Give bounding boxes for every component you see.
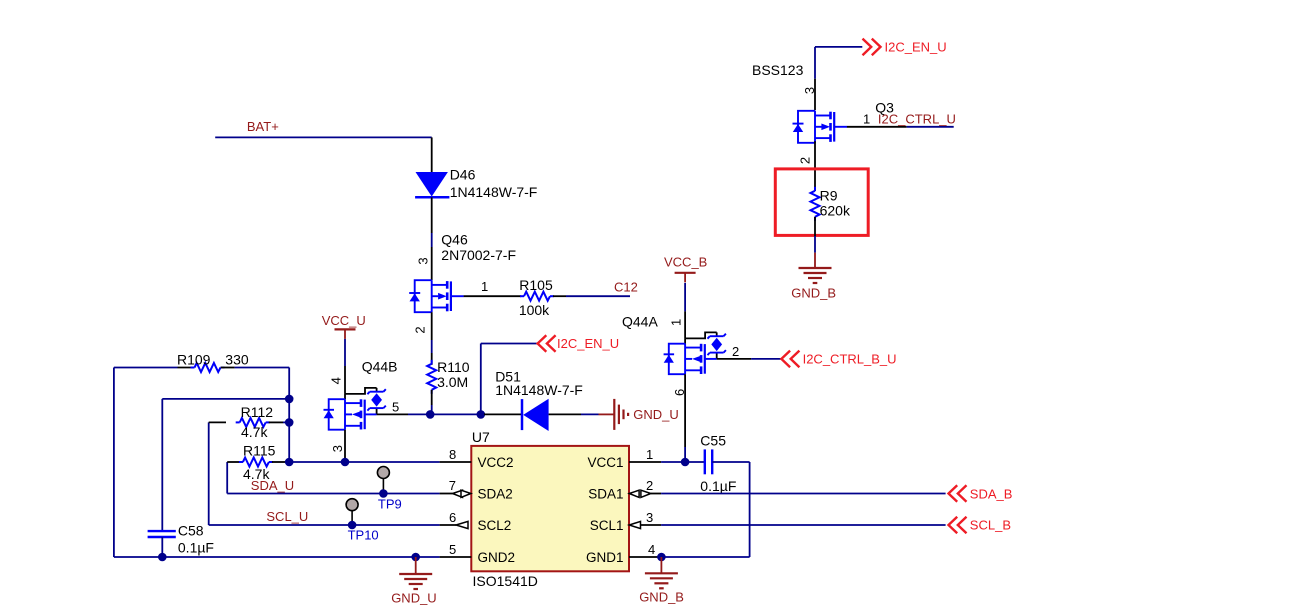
wire pin5 node row xyxy=(408,413,484,415)
wire VCC_U to Q44B xyxy=(344,339,346,366)
svg-text:3: 3 xyxy=(802,87,817,94)
testpoint TP9 xyxy=(377,467,401,512)
transistor Q44A xyxy=(622,314,726,375)
svg-text:GND_B: GND_B xyxy=(639,589,684,604)
wire VCC_B to Q44A xyxy=(684,283,686,312)
svg-text:I2C_CTRL_B_U: I2C_CTRL_B_U xyxy=(803,352,897,367)
wire SDA_U xyxy=(227,493,439,495)
svg-text:1: 1 xyxy=(668,319,683,326)
svg-text:VCC2: VCC2 xyxy=(478,455,514,470)
svg-text:GND1: GND1 xyxy=(586,550,624,565)
wire left column xyxy=(113,368,115,558)
svg-text:1: 1 xyxy=(863,111,870,126)
ground GND_U (side) xyxy=(614,399,679,430)
capacitor C58 0.1uF xyxy=(148,523,214,558)
svg-text:TP10: TP10 xyxy=(348,528,379,543)
svg-text:4: 4 xyxy=(648,542,655,557)
resistor R9 620k xyxy=(811,187,851,236)
IC U7 ISO1541D body xyxy=(471,429,629,589)
net label SCL_U xyxy=(266,509,308,524)
junction GND1 xyxy=(657,553,666,562)
svg-text:2: 2 xyxy=(732,344,739,359)
wire R9 to GND_B xyxy=(814,236,816,268)
svg-text:GND_B: GND_B xyxy=(791,285,836,300)
wire BAT+ corner to D46 xyxy=(431,137,433,172)
port SCL_B xyxy=(949,517,1012,534)
svg-text:7: 7 xyxy=(449,478,456,493)
resistor R112 4.7k xyxy=(209,404,290,525)
wire / net label C12 xyxy=(566,280,638,297)
svg-text:8: 8 xyxy=(449,447,456,462)
svg-text:GND_U: GND_U xyxy=(391,590,437,605)
wire SCL1 to port xyxy=(661,524,946,526)
junction VCC1/Q44A xyxy=(681,458,690,467)
svg-text:0.1µF: 0.1µF xyxy=(178,540,214,556)
wire Q44A to VCC1 node xyxy=(684,447,686,462)
svg-text:ISO1541D: ISO1541D xyxy=(473,573,538,589)
power port VCC_U xyxy=(322,313,366,339)
svg-text:GND_U: GND_U xyxy=(633,407,679,422)
svg-text:TP9: TP9 xyxy=(378,496,402,511)
svg-text:I2C_CTRL_U: I2C_CTRL_U xyxy=(878,111,956,126)
wire SDA1 to port xyxy=(661,493,946,495)
diode D46 1N4148W-7-F xyxy=(415,166,537,200)
wire D46 to Q46 xyxy=(431,197,433,280)
svg-text:VCC1: VCC1 xyxy=(587,455,623,470)
ground GND_B (bottom) xyxy=(639,557,684,604)
power port VCC_B xyxy=(664,254,707,282)
svg-text:SCL_U: SCL_U xyxy=(266,509,308,524)
pin 3 of Q44B xyxy=(330,430,345,462)
svg-text:D46: D46 xyxy=(450,166,476,182)
resistor R115 4.7k xyxy=(227,443,289,494)
svg-text:1N4148W-7-F: 1N4148W-7-F xyxy=(450,184,538,200)
svg-text:BAT+: BAT+ xyxy=(247,119,279,134)
net label BAT+ xyxy=(247,119,279,134)
pin 1 VCC1 xyxy=(587,447,661,470)
pin 6 SCL2 xyxy=(440,510,512,533)
pin 3 of Q3 xyxy=(802,79,817,111)
junction EN branch xyxy=(477,410,486,419)
svg-text:1: 1 xyxy=(481,279,488,294)
pin 8 VCC2 xyxy=(440,447,514,470)
ground GND_U (bottom) xyxy=(391,553,437,606)
pin 4 of Q44B xyxy=(328,366,345,394)
svg-text:4.7k: 4.7k xyxy=(241,424,268,440)
wire mid column xyxy=(288,368,290,463)
svg-text:C55: C55 xyxy=(700,433,726,449)
svg-text:VCC_U: VCC_U xyxy=(322,313,366,328)
pin 3 SCL1 xyxy=(590,510,661,533)
port I2C_EN_U (top right) xyxy=(863,39,947,56)
testpoint TP10 xyxy=(346,499,379,543)
svg-text:SDA_B: SDA_B xyxy=(970,487,1013,502)
junction Q44B pin3 xyxy=(341,458,350,467)
pin 2 SDA1 xyxy=(588,478,661,501)
resistor R109 330 xyxy=(114,351,289,372)
svg-text:0.1µF: 0.1µF xyxy=(700,478,736,494)
svg-text:3: 3 xyxy=(646,510,653,525)
wire GND2 row xyxy=(114,556,440,558)
pin 2 of Q44A / port I2C_CTRL_B_U xyxy=(717,344,897,367)
svg-text:5: 5 xyxy=(392,399,399,414)
pin 1 of Q3 / net I2C_CTRL_U xyxy=(847,111,956,127)
svg-text:100k: 100k xyxy=(519,302,550,318)
svg-text:R105: R105 xyxy=(519,277,553,293)
wire C58 branch xyxy=(162,399,289,531)
wire Q46 to R110 xyxy=(431,340,433,365)
resistor R105 100k xyxy=(519,277,566,318)
label Q46 2N7002-7-F xyxy=(441,231,516,263)
svg-text:SCL_B: SCL_B xyxy=(970,518,1011,533)
port I2C_EN_U (middle) xyxy=(538,335,620,352)
svg-text:R112: R112 xyxy=(241,404,274,420)
svg-text:R9: R9 xyxy=(820,187,838,203)
highlight box around R9 xyxy=(775,169,868,236)
svg-text:6: 6 xyxy=(449,510,456,525)
svg-text:SCL1: SCL1 xyxy=(590,518,624,533)
junction C58 branch xyxy=(285,395,294,404)
svg-text:6: 6 xyxy=(672,389,687,396)
capacitor C55 0.1uF xyxy=(700,433,736,494)
pin 4 GND1 xyxy=(586,542,661,565)
svg-text:2: 2 xyxy=(413,326,428,333)
pin 1 of Q44A xyxy=(668,311,685,338)
svg-text:Q44A: Q44A xyxy=(622,314,658,330)
net label SDA_U xyxy=(251,478,294,493)
wire to port I2C_EN_U xyxy=(481,344,538,415)
ground GND_B (top) xyxy=(791,268,836,300)
svg-text:2N7002-7-F: 2N7002-7-F xyxy=(441,247,516,263)
svg-text:620k: 620k xyxy=(820,203,851,219)
wire BAT+ xyxy=(215,136,432,138)
label BSS123 xyxy=(752,62,804,78)
svg-text:VCC_B: VCC_B xyxy=(664,254,707,269)
transistor Q3 xyxy=(793,99,895,142)
wire pin8 row xyxy=(289,461,439,463)
pin 6 of Q44A xyxy=(672,374,687,447)
pin 5 of Q44B xyxy=(377,399,408,414)
svg-text:R109: R109 xyxy=(177,351,211,367)
svg-text:R115: R115 xyxy=(243,443,276,459)
svg-text:Q44B: Q44B xyxy=(362,359,398,375)
wire R110 to node xyxy=(431,390,433,415)
svg-text:3: 3 xyxy=(330,445,345,452)
wire VCC1 to C55 xyxy=(661,461,705,463)
junction R115/pin8 xyxy=(285,458,294,467)
svg-text:SDA1: SDA1 xyxy=(588,487,623,502)
diode D51 1N4148W-7-F xyxy=(484,369,583,432)
wire SCL_U xyxy=(209,524,440,526)
svg-text:2: 2 xyxy=(798,157,813,164)
resistor R110 3.0M xyxy=(427,359,470,394)
svg-text:C58: C58 xyxy=(178,523,204,539)
svg-text:R110: R110 xyxy=(437,359,470,375)
svg-text:2: 2 xyxy=(646,478,653,493)
svg-text:Q46: Q46 xyxy=(441,231,468,247)
svg-text:BSS123: BSS123 xyxy=(752,62,804,78)
wire D51 to GND_U xyxy=(581,413,614,415)
junction R110/node xyxy=(426,410,435,419)
pin 5 GND2 xyxy=(440,542,515,565)
svg-text:SCL2: SCL2 xyxy=(478,518,512,533)
svg-text:5: 5 xyxy=(449,542,456,557)
pin 2 of Q3 xyxy=(798,141,816,191)
svg-text:1N4148W-7-F: 1N4148W-7-F xyxy=(495,382,583,398)
pin 2 of Q46 xyxy=(413,312,432,340)
junction R112 xyxy=(285,418,294,427)
svg-text:C12: C12 xyxy=(614,280,638,295)
transistor Q46 xyxy=(409,280,464,312)
pin 1 of Q46 xyxy=(464,279,521,296)
svg-text:GND2: GND2 xyxy=(478,550,516,565)
svg-text:U7: U7 xyxy=(472,429,490,445)
wire net I2C_EN_U to Q3 drain xyxy=(815,47,862,79)
junction C58 bottom xyxy=(158,553,167,562)
port SDA_B xyxy=(949,485,1013,502)
pin 7 SDA2 xyxy=(440,478,513,501)
svg-text:I2C_EN_U: I2C_EN_U xyxy=(885,40,947,55)
transistor Q44B xyxy=(324,359,398,430)
svg-text:4: 4 xyxy=(328,377,343,384)
svg-text:3: 3 xyxy=(415,257,430,264)
svg-text:3.0M: 3.0M xyxy=(437,374,468,390)
svg-text:1: 1 xyxy=(646,447,653,462)
svg-text:SDA_U: SDA_U xyxy=(251,478,294,493)
wire C55 to GND1 xyxy=(661,462,749,557)
pin 3 of Q46 xyxy=(415,257,430,264)
svg-text:330: 330 xyxy=(225,351,249,367)
svg-text:I2C_EN_U: I2C_EN_U xyxy=(557,336,619,351)
svg-text:SDA2: SDA2 xyxy=(478,487,513,502)
